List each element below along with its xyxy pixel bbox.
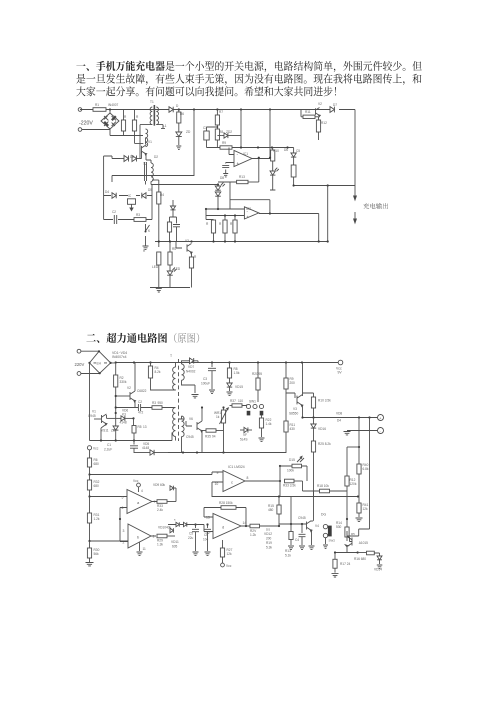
svg-text:VS11: VS11 [101,429,109,433]
svg-text:D3: D3 [130,155,134,159]
resistor R15 480 [268,495,281,527]
svg-text:7: 7 [154,500,156,504]
label VD12 R19 [264,528,272,550]
svg-text:V2: V2 [318,102,322,106]
svg-text:R16 680: R16 680 [354,557,366,561]
AC input 220V terminal [78,108,110,132]
svg-text:C2: C2 [112,210,116,214]
heading section 2 [86,333,167,343]
svg-text:95: 95 [259,372,263,376]
resistor R17 [189,253,193,288]
svg-text:VD12: VD12 [264,532,272,536]
resistor R22 1.4k [259,415,272,441]
capacitor C5 22u [188,523,199,555]
svg-text:680: 680 [94,484,100,488]
resistor R37 110 [230,399,247,407]
transistor V3 S8550 [289,363,303,418]
svg-text:IC2: IC2 [246,207,251,211]
label VD1-VD4 [112,351,127,359]
resistor R40 6.8k [357,418,369,497]
wire x280 down [279,481,281,497]
svg-text:8.2k: 8.2k [155,370,161,374]
output terminal arrows [354,196,357,223]
svg-text:22u: 22u [188,536,194,540]
wire Q1 leads [145,144,147,160]
svg-text:D5: D5 [148,188,152,192]
resistor R12 120k [345,447,359,491]
svg-text:C1: C1 [107,443,111,447]
svg-text:D7: D7 [333,103,337,107]
svg-text:R18 10k: R18 10k [317,484,329,488]
wire T2 bottom rail [151,184,218,186]
inductor L1 [146,129,148,147]
wire bottom rail [150,287,190,289]
capacitor C2 472 [138,400,144,415]
svg-text:IN4007x4: IN4007x4 [112,355,127,359]
Vcc terminal 9V [336,360,343,374]
transistor Q2 [316,108,320,116]
ground V4 emitter [309,532,315,549]
relay DG [321,513,335,549]
wire y524.5 [183,525,204,532]
capacitor C4 [295,523,306,550]
svg-text:R1: R1 [95,103,99,107]
paragraph line 1 bold run [76,61,164,71]
svg-text:R3: R3 [152,401,156,405]
node bus dots [115,361,304,363]
resistor R11 [301,110,319,119]
svg-text:L1: L1 [163,124,167,128]
AC terminal bottom [77,372,100,376]
svg-text:D: D [176,104,179,108]
transformer T2 [145,160,154,185]
svg-text:A1015: A1015 [359,541,368,545]
resistor R5 13 [132,418,147,440]
svg-text:C5: C5 [189,532,193,536]
svg-text:56k: 56k [94,552,100,556]
svg-text:R8: R8 [219,130,223,134]
svg-text:ZD: ZD [186,130,191,134]
svg-text:9V: 9V [338,371,343,375]
svg-text:S8550: S8550 [289,412,298,416]
resistor R33 2.4k [157,500,176,512]
value labels c1 [95,100,337,271]
svg-text:V3: V3 [185,239,189,243]
svg-text:1: 1 [153,535,155,539]
svg-text:R19: R19 [266,541,272,545]
resistor R13 5.1k [285,497,294,558]
svg-text:+: + [237,161,240,166]
svg-text:VD9: VD9 [153,483,159,487]
fuse F1 [93,108,106,112]
diode D8 [112,193,116,199]
svg-text:8: 8 [247,476,249,480]
svg-text:530: 530 [336,525,342,529]
svg-text:104: 104 [203,538,209,542]
wire pin3 feed [90,540,129,542]
resistor R13 [218,180,259,183]
svg-text:R: R [219,222,222,226]
LED D11 [270,168,279,190]
svg-text:R37: R37 [230,399,236,403]
wire T2-R4 link [152,179,159,181]
switch K1 [145,224,150,246]
svg-text:V2: V2 [127,386,131,390]
svg-text:6.8k: 6.8k [363,467,369,471]
svg-text:Vcc: Vcc [93,447,99,451]
svg-text:ZD2: ZD2 [226,130,232,134]
resistor R29 1.3k [157,534,175,546]
resistor R2 [132,110,143,144]
svg-text:V1: V1 [92,410,96,414]
svg-text:C3: C3 [203,377,207,381]
resistor R32 680 [87,475,99,498]
transistor Q3 [176,242,192,254]
wire mains left bus [89,363,91,441]
svg-text:R3: R3 [136,213,140,217]
resistor R28 150k [204,501,246,526]
svg-text:IN4007: IN4007 [108,103,119,107]
svg-text:R11: R11 [305,110,311,114]
svg-text:VD15: VD15 [235,385,243,389]
svg-text:SW1: SW1 [249,400,256,404]
svg-text:R25 8.2k: R25 8.2k [318,442,331,446]
bridge rectifier VD1-VD4 [88,350,111,374]
svg-text:472: 472 [138,411,144,415]
transistor V6 C945 [186,406,203,439]
svg-text:D4: D4 [105,190,109,194]
zener VD15 [227,383,244,395]
svg-text:R28 150k: R28 150k [219,501,233,505]
svg-text:11: 11 [143,547,147,551]
wire U2 in left [206,195,218,220]
resistor R2 330k [114,363,127,414]
op-amp U1d [204,514,250,539]
svg-text:c: c [231,480,233,485]
capacitor C6 [173,217,180,242]
svg-text:4148: 4148 [142,446,149,450]
svg-text:LED: LED [152,265,159,269]
resistor R9 [220,146,232,149]
svg-text:1k: 1k [216,415,220,419]
zener ZD3 [215,192,221,197]
svg-text:R12: R12 [321,121,327,125]
svg-text:13: 13 [143,425,147,429]
svg-text:R13: R13 [285,549,291,553]
transformer T1 [140,105,165,130]
diode D9 [142,193,146,199]
svg-text:Vcc: Vcc [226,564,232,568]
svg-text:C6822: C6822 [137,389,147,393]
paragraph line 2 [76,74,421,85]
resistor R4 [157,180,161,247]
svg-text:N4002: N4002 [186,370,196,374]
svg-text:200: 200 [290,381,296,385]
diode VD14 [374,556,382,571]
svg-text:R6: R6 [180,112,184,116]
svg-text:680: 680 [94,462,100,466]
svg-text:R4: R4 [160,193,164,197]
svg-text:5.3k: 5.3k [266,546,272,550]
svg-text:110: 110 [238,399,243,403]
resistor R4b [157,252,161,288]
svg-text:R35: R35 [205,435,211,439]
op-amp U1c [212,471,280,498]
switch SW1 [246,400,263,416]
resistor R10 [271,148,275,172]
op-amp U1b [119,518,156,548]
zener D15 [291,148,296,166]
capacitor C5 electrolytic [291,165,296,186]
ground pin11 [137,543,147,556]
svg-text:V4: V4 [315,524,319,528]
paragraph line 3 [76,86,336,96]
svg-text:IC1: IC1 [243,152,248,156]
svg-text:C945: C945 [186,435,194,439]
capacitor C3 electrolytic [204,126,219,147]
diode D12 [330,107,334,113]
svg-text:C945: C945 [298,516,306,520]
label VD8 [336,412,342,423]
wire U2 out drop [318,214,320,242]
resistor R18 10k [303,481,348,493]
resistor R26 1.2k [245,524,279,537]
svg-text:d: d [222,525,224,530]
svg-text:T2: T2 [143,162,147,166]
svg-text:DS: DS [266,528,270,532]
svg-text:LED: LED [174,267,181,271]
wire bus y441 [90,433,173,441]
svg-text:ZD: ZD [111,429,116,433]
svg-text:R5: R5 [138,425,142,429]
wire osc row [116,407,170,409]
svg-text:R20: R20 [252,372,258,376]
svg-text:100uF: 100uF [201,382,210,386]
wire bus y474.5 [90,474,213,476]
resistor R5 [168,242,172,272]
wire mid vertical [240,110,242,148]
svg-text:1.2k: 1.2k [250,533,256,537]
svg-text:R9: R9 [222,141,226,145]
diode VD6 4148 [107,409,135,425]
paragraph line 1 regular run [165,61,421,72]
wire output feed [294,185,355,187]
svg-text:+: + [379,416,381,420]
op-amp U2 [206,207,319,220]
resistor R3 950 [152,401,163,409]
resistor R3 [134,218,146,222]
pot WR1 1k [214,406,228,430]
svg-text:VD14: VD14 [374,567,382,571]
svg-text:R33 3.5k: R33 3.5k [283,484,296,488]
wire comparator top rail [207,147,294,149]
svg-text:4: 4 [141,489,143,493]
diode VD7 N4002 [186,358,198,374]
svg-text:IC: IC [128,194,132,198]
capacitor C4 [222,163,229,177]
zener ZD4 [170,200,175,217]
svg-text:VD8: VD8 [336,412,342,416]
svg-text:R10: R10 [273,149,279,153]
svg-text:VD7: VD7 [188,365,194,369]
svg-text:R: R [136,115,139,119]
svg-text:D15: D15 [289,458,295,462]
svg-text:C6: C6 [204,533,208,537]
resistor R16 [233,214,237,241]
transistor V5 A1015 [345,531,368,553]
svg-text:R: R [194,255,197,259]
svg-text:DG: DG [321,513,326,517]
svg-text:605: 605 [172,545,178,549]
diode D5 [166,107,178,113]
svg-text:10: 10 [215,482,219,486]
zener pair VD10 VD11 [168,518,187,527]
resistor R35 94 [202,429,224,439]
svg-text:VD16: VD16 [318,427,326,431]
svg-text:2.4k: 2.4k [157,508,163,512]
zener VS11 [101,412,118,441]
wire U2 fb loop [230,182,270,214]
svg-text:VF: VF [243,433,247,437]
svg-text:s: s [174,518,176,522]
svg-text:5L4S: 5L4S [240,438,247,442]
resistor R4 8.2k [148,363,168,391]
ground output [344,432,351,435]
svg-text:R5: R5 [351,532,355,536]
svg-text:1.4k: 1.4k [266,422,272,426]
wire fb column [258,158,260,182]
svg-text:D4: D4 [337,419,341,423]
zener ZD1 [176,132,182,149]
transformer T1 [168,354,199,453]
transistor V2 C6822 [115,363,147,408]
svg-text:R: R [206,222,209,226]
resistor R10 3.5k [303,393,332,418]
node rail dots [240,146,289,148]
wire wr1 down [202,430,224,453]
wire left box vertical [104,156,112,220]
svg-text:R17 24: R17 24 [340,562,351,566]
svg-text:1.3k: 1.3k [157,543,163,547]
svg-text:1.5k: 1.5k [234,371,240,375]
svg-text:SW2: SW2 [329,539,336,543]
svg-text:3: 3 [123,529,125,533]
resistor R15 [223,214,227,241]
wire pin5 feed [90,496,128,498]
resistor R1 [121,110,125,136]
resistor R11 430 [284,393,295,453]
diode VD10 [158,526,173,533]
wire right edge [354,110,356,197]
svg-text:R5: R5 [172,247,176,251]
svg-text:120k: 120k [350,482,357,486]
AC terminal top [77,349,99,353]
svg-text:330k: 330k [120,380,127,384]
resistor R8 1.5k [227,363,240,384]
ground left [86,563,94,566]
svg-text:R10 3.5k: R10 3.5k [318,399,331,403]
label VD11 [171,540,179,549]
wire top bus drop [269,110,271,158]
svg-text:C5: C5 [296,149,300,153]
wire right column [347,418,370,537]
svg-text:220V: 220V [75,362,85,367]
diode VD9 [153,483,176,502]
photoresistor D15 100k [279,456,307,481]
LED D13 [215,183,225,191]
wire bridge top/bottom leads [110,110,143,136]
op-amp U1 [229,148,270,167]
svg-text:IC1 LM324: IC1 LM324 [228,465,245,469]
svg-text:D6: D6 [284,148,288,152]
diode D6 [120,156,129,162]
resistor R7 [215,110,219,130]
wire snubber row [104,195,152,197]
svg-text:T: T [170,354,172,358]
svg-text:R: R [124,115,127,119]
svg-text:200: 200 [266,537,272,541]
diode D7 [132,156,140,162]
svg-text:T1: T1 [150,100,154,104]
capacitor C3 100uF [201,363,216,394]
resistor R16 680 [354,551,380,561]
svg-text:C2: C2 [138,400,142,404]
Vcc terminal left [87,446,98,458]
svg-text:60k: 60k [160,483,166,487]
wire T2 bottom to left box [151,185,153,220]
diode VF 5L4S [240,427,252,441]
svg-text:V1: V1 [148,140,152,144]
wire base feed [112,130,142,159]
svg-text:V6: V6 [189,417,193,421]
svg-text:100k: 100k [287,469,294,473]
svg-text:C3: C3 [203,126,207,130]
svg-text:R13: R13 [239,175,245,179]
label charging output [363,203,388,209]
svg-text:6: 6 [122,506,124,510]
resistor R25 8.2k [311,441,331,497]
wire bottom bus [155,186,328,242]
zener VD16 [311,418,326,442]
output terminal plus [378,415,384,421]
transistor V4 C945 [279,491,319,532]
wire output line [303,417,378,419]
resistor R6 [177,110,181,133]
capacitor C1 2.2uF [104,441,138,454]
svg-text:480: 480 [268,508,274,512]
resistor R8 [215,129,219,148]
resistor R17 24 [332,551,359,577]
node top-bus junctions [109,108,271,110]
ground switch [143,246,149,249]
svg-text:K3: K3 [122,412,126,416]
svg-text:-220V: -220V [79,121,93,127]
resistor R33b 3.5k [279,479,303,487]
wire top bus [80,109,355,111]
resistor R30 56k [87,541,99,562]
resistor R12 [316,117,320,140]
bridge rectifier D1-D4 [101,113,119,129]
svg-text:Vcc: Vcc [133,479,139,483]
resistor R9 200 [284,363,295,394]
svg-text:5.1k: 5.1k [285,554,291,558]
svg-text:4148: 4148 [120,421,127,425]
svg-text:VD10: VD10 [158,526,166,530]
Vcc pin4 [133,479,143,493]
svg-text:430: 430 [290,427,296,431]
ground main [156,289,162,292]
wire bus y497 [212,496,358,498]
